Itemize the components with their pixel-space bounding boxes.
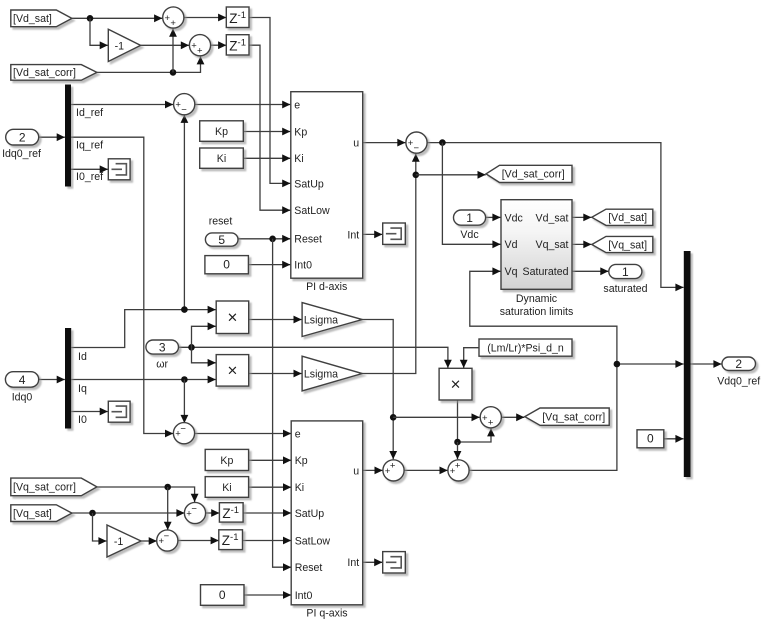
- junction on Vd output wire: [439, 139, 446, 146]
- wire Lsigma1 output down to sum A top: [362, 320, 397, 460]
- svg-text:Reset: Reset: [295, 562, 323, 574]
- wire unit delay D2 to PI d-axis SatLow: [249, 45, 290, 214]
- svg-text:saturation limits: saturation limits: [500, 306, 574, 318]
- svg-text:I0: I0: [78, 414, 87, 426]
- wire product P1 to Lsigma1 gain: [249, 316, 302, 324]
- svg-text:+: +: [390, 461, 396, 472]
- svg-text:PI d-axis: PI d-axis: [306, 281, 347, 293]
- wire sum S4 to PI q-axis e input: [195, 430, 291, 438]
- svg-text:2: 2: [735, 357, 742, 371]
- svg-text:Lsigma: Lsigma: [304, 314, 338, 326]
- svg-text:reset: reset: [209, 216, 233, 228]
- wire Ki gain to PI q-axis Ki input: [249, 483, 292, 491]
- terminator PI d-axis Int: [383, 223, 406, 244]
- wire PI d-axis Int to terminator: [363, 231, 383, 239]
- junction on Id wire: [181, 306, 188, 313]
- svg-text:PI q-axis: PI q-axis: [306, 608, 347, 620]
- goto tag [Vd_sat_corr]: [486, 165, 572, 182]
- wire Vd branch down to Dynamic saturation Vd input: [442, 143, 500, 249]
- sum S3 (Id_ref - Id): [174, 94, 195, 116]
- junction on omega_r wire: [188, 344, 195, 351]
- gain Lsigma (upper): [302, 303, 362, 337]
- constant 0 (d-axis Int0): [205, 256, 249, 274]
- wire sum S5 output to mux input 1: [427, 143, 683, 292]
- svg-text:5: 5: [218, 233, 225, 247]
- svg-text:Kp: Kp: [295, 455, 308, 467]
- svg-text:Int0: Int0: [294, 260, 312, 272]
- svg-text:Id: Id: [78, 351, 87, 363]
- svg-text:Kp: Kp: [215, 126, 228, 138]
- svg-text:Vd_sat: Vd_sat: [536, 212, 569, 224]
- wire input 5 reset to PI d-axis Reset: [238, 235, 290, 243]
- sum S1: [163, 7, 184, 29]
- wire sum B output to mux input 2: [470, 360, 684, 470]
- demux Idq0: [65, 328, 71, 429]
- wire junction down to gain -1 input: [93, 513, 107, 545]
- terminator I0: [108, 401, 130, 422]
- wire constant 0 to PI q-axis Int0: [244, 591, 291, 599]
- junction on Lsigma1 output wire: [390, 414, 397, 421]
- inport 4 Idq0: [5, 372, 38, 404]
- svg-text:SatUp: SatUp: [295, 508, 325, 520]
- wire Lsigma2 output up to sum S5 bottom: [362, 154, 420, 374]
- wire [Vq_sat_corr] to sum C1 top: [97, 487, 199, 502]
- outport 1 saturated: [603, 264, 647, 295]
- wire sum S1 to unit delay D1: [184, 14, 226, 22]
- wire PI q-axis u output to sum A: [363, 467, 383, 475]
- goto tag [Vd_sat]: [592, 209, 653, 225]
- gain block Kp (d-axis): [200, 121, 244, 142]
- junction on reset wire: [269, 236, 276, 243]
- wire input 4 to demux: [39, 376, 65, 384]
- sum S4 (Iq_ref - Iq): [173, 423, 194, 444]
- svg-text:[Vd_sat_corr]: [Vd_sat_corr]: [502, 169, 565, 181]
- wire Kp gain to PI d-axis Kp input: [243, 128, 290, 136]
- wire [Vd_sat] to sum S1: [72, 14, 162, 22]
- svg-text:saturated: saturated: [603, 283, 647, 295]
- junction on Lsigma2 feedback wire: [413, 172, 420, 179]
- wire gain -1 output to sum S2: [141, 41, 189, 49]
- wire input 2 to demux: [39, 133, 65, 141]
- subsystem PI d-axis: [291, 92, 363, 294]
- svg-text:ωr: ωr: [156, 359, 168, 371]
- svg-text:+: +: [197, 46, 203, 57]
- svg-text:0: 0: [223, 258, 230, 272]
- wire junction up to sum S1 bottom: [169, 29, 177, 73]
- junction on Vd_sat wire: [87, 15, 94, 22]
- svg-text:[Vd_sat]: [Vd_sat]: [13, 13, 52, 25]
- wire Id from demux to product P1 input 1: [71, 306, 216, 348]
- wire junction down to sum B top: [454, 442, 462, 459]
- svg-text:Kp: Kp: [220, 455, 233, 467]
- from tag [Vq_sat]: [11, 505, 72, 522]
- svg-text:−: −: [164, 531, 170, 542]
- svg-text:−: −: [180, 424, 186, 435]
- svg-text:Ki: Ki: [222, 482, 231, 494]
- svg-text:Ki: Ki: [295, 482, 304, 494]
- sum Sq (q-axis correction): [480, 407, 501, 429]
- svg-text:3: 3: [159, 340, 166, 354]
- svg-text:Vq: Vq: [505, 266, 518, 278]
- svg-text:u: u: [353, 465, 359, 477]
- svg-text:−: −: [181, 105, 187, 116]
- sum C1 (q SatUp): [184, 502, 205, 523]
- svg-text:[Vq_sat]: [Vq_sat]: [13, 508, 52, 520]
- from tag [Vq_sat_corr]: [11, 478, 97, 496]
- sum C2 (q SatLow): [157, 530, 178, 551]
- wire junction down to sum C2 top: [164, 487, 172, 530]
- mux Vdq0_ref: [684, 251, 691, 477]
- wire input 1 Vdc to Dynamic saturation Vdc: [486, 214, 501, 222]
- gain block Ki (q-axis): [205, 477, 248, 498]
- svg-text:2: 2: [19, 130, 26, 144]
- constant 0 (q-axis Int0): [201, 585, 245, 606]
- wire [Vq_sat] to sum C1: [72, 509, 185, 517]
- svg-text:Ki: Ki: [217, 153, 226, 165]
- wire PI d-axis u output to sum S5: [363, 139, 406, 147]
- wire product P3 output to sum Sq bottom: [458, 400, 495, 442]
- junction on Vq output wire: [614, 361, 621, 368]
- wire Id_ref from demux to sum S3: [71, 101, 173, 109]
- svg-text:Id_ref: Id_ref: [76, 107, 103, 119]
- svg-text:SatLow: SatLow: [295, 535, 331, 547]
- wire gain -1 output to sum C2: [141, 537, 157, 545]
- sum S5 (d-axis output): [406, 132, 427, 154]
- svg-text:Ki: Ki: [294, 153, 303, 165]
- svg-text:Idq0_ref: Idq0_ref: [2, 148, 41, 160]
- svg-text:Vdc: Vdc: [460, 229, 479, 241]
- goto tag [Vq_sat_corr]: [525, 408, 609, 425]
- product P2: [216, 355, 249, 387]
- wire unit delay D1 to PI d-axis SatUp: [249, 18, 290, 188]
- svg-text:Int: Int: [347, 229, 359, 241]
- demux Idq0_ref: [65, 85, 71, 187]
- sum B (q-axis): [448, 460, 469, 481]
- svg-text:0: 0: [219, 588, 226, 602]
- wire sum A to sum B: [404, 467, 447, 475]
- svg-text:-1: -1: [114, 536, 124, 548]
- from tag [Vd_sat]: [11, 10, 72, 27]
- svg-text:SatLow: SatLow: [294, 205, 330, 217]
- junction on Vq_sat_corr wire: [164, 484, 171, 491]
- svg-text:+: +: [170, 18, 176, 29]
- wire Saturated output to outport 1: [572, 267, 609, 275]
- svg-text:Reset: Reset: [294, 234, 322, 246]
- inport 2 Idq0_ref: [2, 129, 41, 160]
- wire constant 0 to PI d-axis Int0: [248, 261, 290, 269]
- wire junction to goto [Vd_sat_corr]: [416, 171, 486, 179]
- subsystem Dynamic saturation limits: [500, 200, 574, 319]
- svg-text:[Vd_sat]: [Vd_sat]: [608, 212, 647, 224]
- svg-text:0: 0: [647, 432, 654, 446]
- sum A (q-axis): [383, 460, 404, 481]
- wire mux output to outport 2: [691, 360, 722, 368]
- sum S2: [189, 35, 210, 57]
- wire sum C1 to unit delay D3: [206, 509, 220, 517]
- gain block Kp (q-axis): [205, 449, 248, 470]
- wire Iq from demux to product P2 input 2: [71, 376, 216, 384]
- unit delay D1: [226, 7, 249, 28]
- wire product P2 to Lsigma2 gain: [249, 370, 302, 378]
- svg-text:[Vq_sat]: [Vq_sat]: [608, 239, 647, 251]
- gain block Ki (d-axis): [200, 148, 244, 168]
- wire omega_r branch to product P1 input 2: [192, 322, 216, 347]
- junction on Iq wire: [181, 376, 188, 383]
- wire omega_r to product P3 top input: [179, 347, 452, 368]
- wire Vq branch to Dynamic saturation Vq input: [470, 267, 617, 364]
- junction on Vd_sat_corr wire: [170, 69, 177, 76]
- svg-text:Int: Int: [347, 557, 359, 569]
- svg-text:Vd: Vd: [505, 239, 518, 251]
- svg-text:+: +: [455, 461, 461, 472]
- unit delay D4: [219, 530, 243, 550]
- svg-text:1: 1: [622, 265, 629, 279]
- wire Vd_sat output to goto [Vd_sat]: [572, 214, 592, 222]
- svg-text:Dynamic: Dynamic: [516, 293, 558, 305]
- gain -1 (d-axis): [108, 29, 140, 61]
- svg-text:[Vq_sat_corr]: [Vq_sat_corr]: [13, 482, 76, 494]
- svg-text:+: +: [488, 418, 494, 429]
- svg-text:Saturated: Saturated: [523, 266, 569, 278]
- svg-text:e: e: [294, 99, 300, 111]
- wire unit delay D3 to PI q-axis SatUp: [243, 509, 291, 517]
- svg-text:Vdq0_ref: Vdq0_ref: [717, 376, 760, 388]
- product P3: [439, 368, 472, 400]
- inport 1 Vdc: [454, 210, 486, 241]
- wire Id feedback up to sum S3 bottom: [181, 115, 189, 310]
- goto tag [Vq_sat]: [592, 236, 653, 252]
- wire I0 from demux to terminator: [71, 408, 108, 416]
- wire Iq branch down to sum S4 top: [181, 380, 189, 424]
- wire Iq_ref from demux to sum S4: [71, 137, 173, 437]
- gain -1 (q-axis): [107, 525, 141, 557]
- wire sum S3 to PI d-axis e input: [195, 101, 291, 109]
- svg-text:Iq: Iq: [78, 383, 87, 395]
- wire sum C2 to unit delay D4: [178, 537, 219, 545]
- wire [Vd_sat_corr] to sum S2 bottom: [97, 56, 204, 72]
- svg-text:Vdc: Vdc: [505, 212, 524, 224]
- subsystem PI q-axis: [291, 421, 363, 620]
- product P1: [216, 301, 249, 334]
- svg-text:Vq_sat: Vq_sat: [536, 239, 569, 251]
- from tag [Vd_sat_corr]: [11, 65, 97, 81]
- wire junction down to gain -1 input: [90, 18, 108, 49]
- svg-text:4: 4: [19, 373, 26, 387]
- wire PI q-axis Int to terminator: [363, 558, 383, 566]
- wire unit delay D4 to PI q-axis SatLow: [243, 537, 292, 545]
- svg-text:I0_ref: I0_ref: [76, 171, 103, 183]
- terminator I0_ref: [108, 159, 130, 180]
- outport 2 Vdq0_ref: [717, 357, 760, 388]
- svg-text:e: e: [295, 428, 301, 440]
- wire omega_r branch to product P2 input 1: [192, 347, 216, 366]
- wire Ki gain to PI d-axis Ki input: [243, 154, 290, 162]
- inport 5 reset: [205, 216, 238, 247]
- wire junction to sum Sq left input: [393, 413, 480, 421]
- wire sum Sq to goto [Vq_sat_corr]: [501, 413, 524, 421]
- svg-text:1: 1: [466, 211, 473, 225]
- svg-text:u: u: [353, 138, 359, 150]
- terminator PI q-axis Int: [383, 552, 406, 573]
- svg-text:[Vd_sat_corr]: [Vd_sat_corr]: [13, 67, 76, 79]
- svg-text:−: −: [414, 143, 420, 154]
- svg-text:SatUp: SatUp: [294, 178, 324, 190]
- svg-text:Iq_ref: Iq_ref: [76, 140, 103, 152]
- wire I0_ref from demux to terminator: [71, 165, 108, 173]
- unit delay D3: [219, 503, 243, 522]
- junction on Vq_sat wire: [89, 510, 96, 517]
- wire reset down to PI q-axis Reset: [273, 239, 292, 571]
- svg-text:[Vq_sat_corr]: [Vq_sat_corr]: [542, 411, 605, 423]
- gain Lsigma (lower): [302, 356, 362, 391]
- svg-text:−: −: [191, 503, 197, 514]
- unit delay D2: [226, 35, 249, 55]
- wire Vq_sat output to goto [Vq_sat]: [572, 241, 592, 249]
- svg-text:-1: -1: [115, 40, 125, 52]
- svg-text:(Lm/Lr)*Psi_d_n: (Lm/Lr)*Psi_d_n: [487, 343, 564, 355]
- wire Kp gain to PI q-axis Kp input: [249, 456, 292, 464]
- junction on product P3 output wire: [454, 439, 461, 446]
- svg-text:Int0: Int0: [295, 590, 313, 602]
- inport 3 omega_r: [146, 340, 179, 371]
- constant 0 (mux third input): [637, 430, 664, 448]
- svg-text:Idq0: Idq0: [12, 392, 33, 404]
- wire constant 0 to mux input 3: [664, 435, 684, 443]
- wire sum S2 to unit delay D2: [211, 41, 227, 49]
- constant (Lm/Lr)*Psi_d_n: [479, 339, 572, 356]
- svg-text:Kp: Kp: [294, 126, 307, 138]
- svg-text:Lsigma: Lsigma: [304, 368, 338, 380]
- wire constant (Lm/Lr)*Psi_d_n to product P3 top input: [460, 348, 479, 368]
